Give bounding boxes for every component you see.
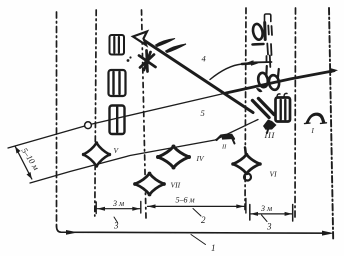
svg-text:5–6 м: 5–6 м (176, 196, 195, 205)
svg-text:3: 3 (113, 221, 119, 231)
svg-text:3: 3 (266, 222, 272, 232)
svg-text:IV: IV (196, 154, 205, 163)
svg-text:II: II (221, 144, 227, 151)
svg-text:VII: VII (171, 181, 181, 190)
svg-text:1: 1 (211, 243, 216, 253)
svg-text:3 м: 3 м (112, 199, 124, 208)
svg-text:5: 5 (201, 108, 205, 118)
svg-text:III: III (264, 130, 276, 140)
svg-text:2: 2 (201, 215, 206, 225)
svg-text:VI: VI (270, 170, 278, 179)
svg-text:3 м: 3 м (260, 204, 272, 213)
